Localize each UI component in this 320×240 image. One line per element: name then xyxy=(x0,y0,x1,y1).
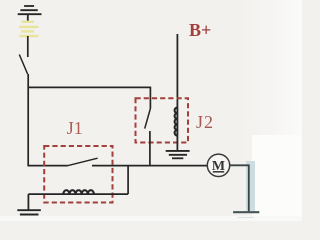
ground G2 line 1 xyxy=(166,150,190,152)
ground G3 faint line 2 xyxy=(238,217,254,219)
battery BAT yellow plate 2 long xyxy=(19,26,38,28)
wire J1 coil bottom run xyxy=(28,193,128,195)
relay J2 switch lower terminal xyxy=(149,131,151,165)
ground G1 line 1 xyxy=(17,209,41,211)
svg-text:J1: J1 xyxy=(67,118,83,138)
relay box J1 (dashed) xyxy=(44,146,112,203)
battery BAT black plate long xyxy=(18,13,42,15)
relay J2 switch blade (open) xyxy=(145,109,151,129)
wire left vertical from switch to J1 input xyxy=(28,74,67,166)
relay box J2 (dashed) xyxy=(136,98,189,142)
motor M underline xyxy=(213,171,224,173)
svg-text:B+: B+ xyxy=(189,20,211,40)
wire coil left to ground stem xyxy=(27,194,29,210)
ground G1 line 2 xyxy=(20,214,39,216)
relay J2 switch upper terminal xyxy=(149,87,151,109)
wire riser coil to output xyxy=(127,166,129,195)
ground G3 line xyxy=(233,211,259,213)
ground G2 line 3 xyxy=(172,157,183,159)
switch S1 blade (open, tilted left) xyxy=(19,55,27,75)
ground G2 line 2 xyxy=(169,154,187,156)
wire J1 switch output to motor xyxy=(92,165,207,167)
svg-text:J2: J2 xyxy=(196,112,214,132)
battery BAT yellow plate 4 long xyxy=(19,35,38,37)
battery BAT black plate medium xyxy=(20,9,37,11)
wire motor right to ground xyxy=(230,165,249,211)
wire battery top stem xyxy=(27,14,29,22)
wire top bus from node at switch to J2 xyxy=(28,86,150,88)
wire battery bottom stem to switch xyxy=(27,36,29,57)
battery BAT yellow plate 1 short xyxy=(21,21,34,23)
motor M circle xyxy=(207,154,229,176)
battery BAT yellow plate 3 short xyxy=(21,30,34,32)
battery BAT black plate short xyxy=(24,5,34,7)
wire J2 coil top vertical core xyxy=(176,108,178,136)
relay J2 coil (vertical, 5 bumps) xyxy=(175,108,178,136)
relay J1 coil (5 bumps on bottom wire) xyxy=(63,190,94,194)
wire B+ vertical to J2 coil xyxy=(176,34,178,108)
relay J1 switch blade (open, rises to right) xyxy=(67,158,98,166)
wire J2 coil to ground xyxy=(176,136,178,151)
